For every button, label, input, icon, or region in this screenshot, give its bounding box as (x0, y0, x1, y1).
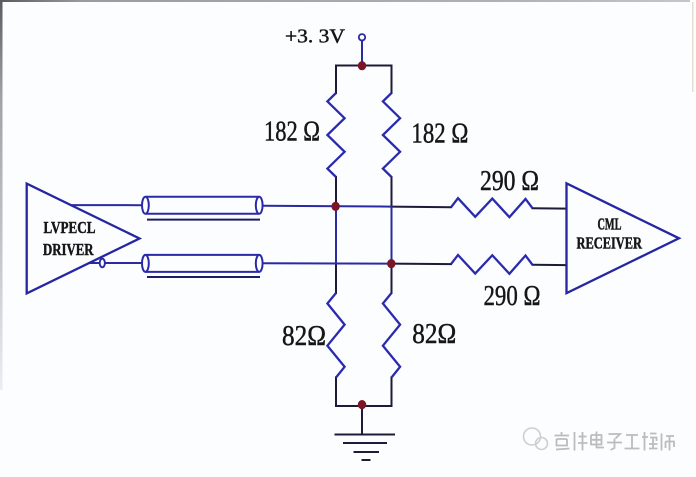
svg-text:LVPECL: LVPECL (44, 218, 96, 237)
svg-text:182 Ω: 182 Ω (411, 118, 468, 150)
svg-text:82Ω: 82Ω (282, 320, 326, 352)
svg-text:290 Ω: 290 Ω (480, 165, 539, 197)
svg-text:CML: CML (598, 215, 622, 234)
svg-text:182 Ω: 182 Ω (264, 116, 320, 148)
svg-text:+3. 3V: +3. 3V (285, 27, 345, 48)
svg-text:DRIVER: DRIVER (43, 240, 94, 259)
svg-text:290 Ω: 290 Ω (484, 280, 541, 312)
svg-text:82Ω: 82Ω (412, 318, 456, 350)
svg-text:RECEIVER: RECEIVER (577, 234, 643, 253)
